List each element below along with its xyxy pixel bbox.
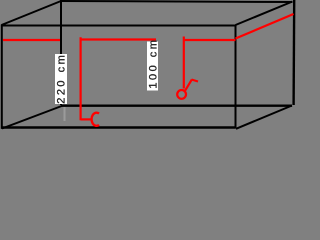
svg-text:220 cm: 220 cm (56, 53, 68, 104)
svg-text:100 cm: 100 cm (148, 38, 160, 89)
